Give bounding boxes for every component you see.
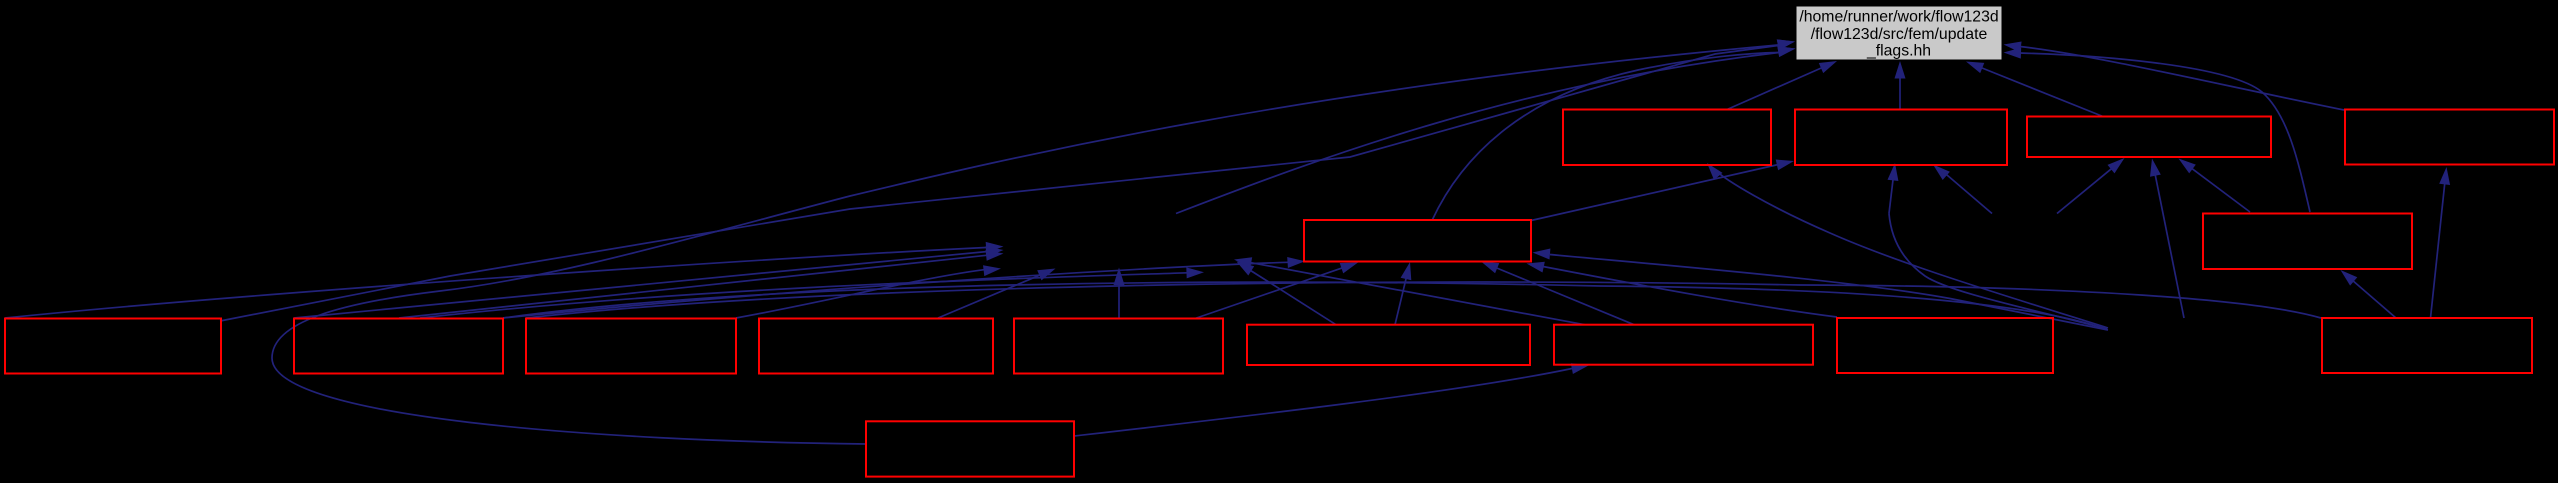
- node B5: [1014, 319, 1223, 374]
- node B4: [759, 319, 993, 374]
- edge V4c-A3: [2057, 168, 2112, 213]
- node A4: [2345, 110, 2554, 165]
- edge B7-M: [1496, 268, 1634, 325]
- edge R2-G: [2020, 53, 2310, 212]
- edge Vb-A1: [1714, 169, 2108, 328]
- node B9: [2322, 318, 2532, 373]
- node M: [1304, 220, 1531, 262]
- arrowhead edge B5-V1: [1114, 268, 1125, 286]
- node B2: [294, 319, 503, 374]
- edge B6-M: [1395, 278, 1406, 325]
- arrowhead edge B2-M: [1287, 257, 1305, 268]
- edge B5-V1: [1118, 284, 1120, 319]
- node A3: [2027, 117, 2271, 158]
- edge M-G: [1432, 53, 1779, 221]
- arrowhead edge V4c-A3: [2108, 158, 2125, 173]
- arrowhead edge Vb2-A3: [2150, 159, 2161, 177]
- edge V2-G: [1176, 53, 1779, 214]
- arrowhead edge A4-G: [2004, 42, 2022, 53]
- arrowhead edge A1-G: [1819, 61, 1837, 73]
- edge C1-G: [272, 45, 1778, 444]
- arrowhead edge B4-V1: [1037, 269, 1055, 281]
- edge B8-M: [1543, 267, 1837, 318]
- arrowhead edge Vb-A1: [1707, 163, 1723, 180]
- node B6: [1247, 325, 1530, 365]
- edge V4b-A2: [1944, 172, 1993, 214]
- arrowhead edge A3-G: [1966, 62, 1984, 74]
- edge B4-V1: [938, 275, 1041, 318]
- arrowhead edge M-G: [1777, 46, 1795, 57]
- arrowhead edge B2c-V2: [1186, 267, 1204, 278]
- node B1: [5, 319, 221, 374]
- arrowhead edge B6-V2: [1237, 262, 1255, 276]
- edge V4-A2: [1889, 179, 1893, 214]
- node G main grey node: [1796, 6, 2002, 60]
- arrowhead edge A2-G: [1895, 61, 1906, 79]
- arrowhead edge B2-V1: [986, 246, 1004, 257]
- edge B2-V1: [294, 252, 988, 319]
- arrowhead edge C1-B7: [1571, 363, 1589, 374]
- node C1: [866, 421, 1074, 476]
- arrowhead edge B9-A4: [2439, 167, 2450, 185]
- arrowhead edge B7-M: [1481, 262, 1499, 274]
- edge Vb2-A3: [2155, 174, 2184, 318]
- svg-text:/flow123d/src/fem/update: /flow123d/src/fem/update: [1811, 26, 1988, 43]
- edge B2b-V1: [399, 255, 988, 318]
- arrowhead edge B1-V1: [986, 242, 1004, 253]
- arrowhead edge B7-V2: [1234, 257, 1252, 268]
- edge B7-V2: [1250, 262, 1585, 324]
- edge B6-V2: [1250, 270, 1336, 325]
- arrowhead edge B9-R2: [2341, 270, 2358, 286]
- arrowhead edge V4-A2: [1888, 163, 1899, 181]
- edge V4-A2 lower section from Vb: [1889, 214, 2107, 330]
- edge B9-R2: [2353, 281, 2396, 319]
- edge B2-Vb long flat: [503, 282, 2107, 329]
- arrowhead edge V2-G: [1777, 46, 1795, 57]
- arrowhead edge C1-G: [1777, 39, 1795, 50]
- svg-text:_flags.hh: _flags.hh: [1866, 43, 1931, 60]
- edge R2-A3: [2191, 168, 2250, 212]
- edge A4-G: [2020, 47, 2344, 111]
- arrowhead edge B3-V1: [983, 265, 1001, 276]
- svg-text:/home/runner/work/flow123d: /home/runner/work/flow123d: [1799, 9, 1998, 26]
- arrowhead edge R2-G: [2004, 48, 2022, 59]
- edge B5-M: [1195, 268, 1343, 319]
- node A2: [1795, 110, 2007, 166]
- edge C1-B7: [1074, 369, 1572, 437]
- edge B3-B9 long flat: [526, 282, 2321, 318]
- edge B9-A4: [2431, 183, 2445, 318]
- arrowhead edge B6-M: [1401, 262, 1412, 280]
- arrowhead edge B5-M: [1340, 263, 1358, 274]
- node R2: [2203, 214, 2412, 270]
- edge B1-G: [220, 46, 1778, 322]
- node B3: [526, 319, 736, 374]
- arrowhead edge Vb-M: [1533, 249, 1551, 260]
- arrowhead edge V4b-A2: [1933, 165, 1950, 181]
- node B7: [1554, 325, 1813, 365]
- edge Vb-M: [1550, 255, 2108, 331]
- arrowhead edge B2b-V1: [986, 250, 1004, 261]
- arrowhead edge B8-M: [1527, 262, 1545, 273]
- edge A1-G: [1727, 68, 1822, 110]
- node B8: [1837, 318, 2053, 373]
- edge M-A2: [1531, 165, 1778, 221]
- edge B2c-V2: [420, 273, 1187, 318]
- arrowhead edge B1-G: [1777, 39, 1795, 50]
- edge B1-V1: [5, 248, 986, 319]
- edge A2-G: [1899, 77, 1901, 110]
- node A1: [1563, 110, 1771, 166]
- edge B3-V1: [736, 270, 984, 318]
- arrowhead edge M-A2: [1776, 160, 1794, 171]
- edge A3-G: [1981, 68, 2103, 117]
- edge B2-M: [503, 262, 1288, 318]
- arrowhead edge R2-A3: [2179, 159, 2196, 174]
